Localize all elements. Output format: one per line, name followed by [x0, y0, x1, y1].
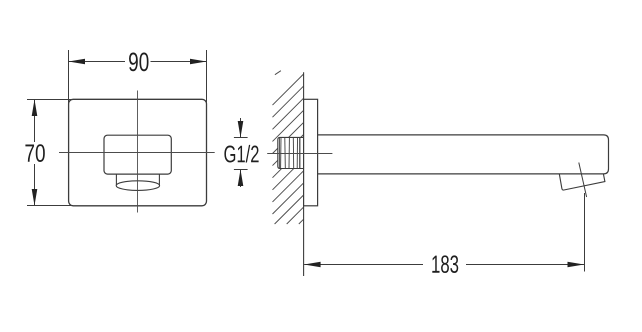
dimension G1/2: top extension line [234, 137, 248, 139]
nipple inner left edge [278, 138, 280, 168]
thread line 4 [292, 138, 294, 168]
front view: outlet neck right edge [158, 174, 160, 185]
wall hatching [273, 71, 304, 224]
front view: spout body square [104, 135, 171, 174]
thread line 2 [284, 138, 287, 168]
side view: spout tube outline [318, 135, 609, 174]
front view: outlet rim ellipse [116, 181, 159, 191]
side view: wall plate profile [304, 99, 318, 206]
nipple centerline [267, 153, 332, 155]
dimension G1/2: bottom extension line [234, 169, 248, 171]
dimension G1/2: upper arrowhead pointing down [238, 121, 244, 138]
dimension 70: top extension line [27, 99, 73, 101]
dimension 70: bottom arrowhead [32, 189, 38, 206]
dimension 183: right arrowhead [568, 262, 585, 268]
dimension 70: dimension line upper segment [34, 100, 36, 143]
thread line 5 [296, 138, 298, 168]
front view: vertical centerline [137, 91, 139, 213]
dimension 90: right arrowhead [190, 59, 207, 65]
front view: wall plate outline [69, 99, 207, 206]
G1/2 label text "G1/2" [224, 145, 258, 163]
dimension 183: right extension line [584, 193, 586, 272]
dimension 70: bottom extension line [27, 205, 73, 207]
dimension 70: top arrowhead [32, 100, 38, 117]
thread end line [299, 137, 301, 168]
dimension G1/2: upper dimension line [240, 118, 242, 138]
dimension 90: dimension line right segment [151, 61, 207, 63]
dimension 70: dimension line lower segment [34, 164, 36, 206]
dimension G1/2: lower dimension line [240, 170, 242, 188]
dimension 90: left arrowhead [69, 59, 86, 65]
outlet axis slanted line [579, 163, 587, 198]
dimension 183: dimension line left segment [304, 264, 423, 266]
front view: horizontal centerline [59, 152, 215, 154]
dimension 183: dimension line right segment [466, 264, 584, 266]
front view: outlet neck left edge [115, 174, 117, 185]
dimension 90: right extension line [206, 50, 208, 104]
threaded nipple G1/2 body [278, 137, 304, 168]
thread line 3 [288, 138, 290, 168]
dimension 183: left arrowhead [304, 262, 321, 268]
dimension 90: dimension line left segment [69, 61, 125, 63]
dim 90 text "90" [129, 53, 149, 72]
spout outlet tip (tilted aerator) [559, 174, 605, 190]
dim 183 text "183" [432, 255, 458, 273]
dimension 90: left extension line [68, 50, 70, 104]
wall face line [303, 72, 305, 276]
dim 70 text "70" [25, 144, 44, 162]
thread line 1 [280, 138, 282, 168]
dimension G1/2: lower arrowhead pointing up [238, 170, 244, 187]
